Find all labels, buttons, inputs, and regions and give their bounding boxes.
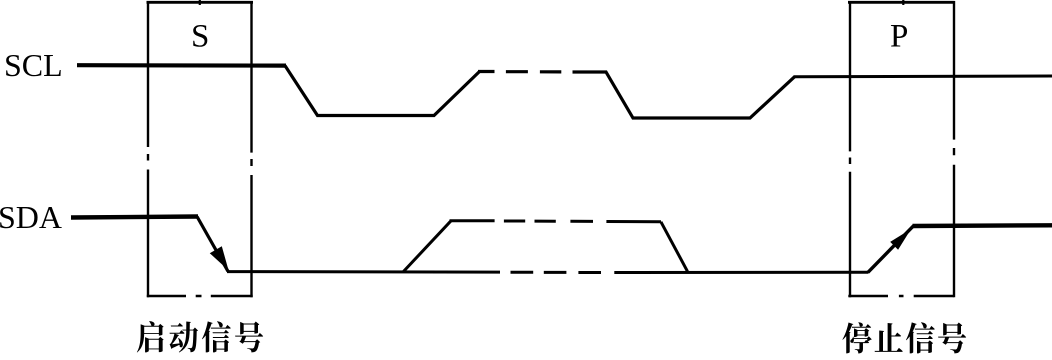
svg-text:P: P xyxy=(890,19,908,55)
S box top edge xyxy=(147,1,254,4)
SCL right high segment through P box xyxy=(794,75,1052,79)
caption 停止信号 (stop signal) xyxy=(842,322,966,353)
SDA wire: stop rise xyxy=(868,226,914,272)
svg-text:SCL: SCL xyxy=(4,47,63,83)
SCL dashed high (clock idle ...) xyxy=(506,70,561,73)
P box bottom edge (dash-dot) xyxy=(848,295,954,298)
SDA low dashed xyxy=(511,271,602,274)
SDA hump high dashed xyxy=(504,220,593,223)
SDA low 1 solid xyxy=(227,270,500,274)
svg-text:S: S xyxy=(191,19,209,55)
S box bottom edge (dash-dot) xyxy=(147,295,253,298)
arrowhead start (SDA falls while SCL high) xyxy=(211,247,228,269)
SDA right high segment (thick) xyxy=(913,223,1052,228)
P box right side (dash-dot) xyxy=(953,1,955,297)
SDA wire: hump rise xyxy=(403,221,451,272)
SDA lead-in high segment (thick) xyxy=(71,217,198,218)
SCL lead-in high segment (thick) xyxy=(77,63,286,68)
SDA low 2 solid xyxy=(614,271,868,274)
S box left side (dash-dot) xyxy=(147,1,149,297)
SDA wire: hump fall xyxy=(661,222,688,272)
SDA wire: start fall xyxy=(197,217,228,272)
P box top edge xyxy=(848,1,955,4)
P box center tick xyxy=(902,0,904,5)
SCL high solid before dashes xyxy=(478,70,495,73)
SCL wire: fall 1, low 1, rise 1 xyxy=(285,66,480,116)
S box right side (dash-dot) xyxy=(250,1,252,297)
svg-text:SDA: SDA xyxy=(0,199,62,235)
S box center tick xyxy=(199,0,201,5)
SDA hump high solid right xyxy=(606,220,661,223)
SCL wire: high solid, fall 2, low 2, rise 2 xyxy=(573,72,795,118)
caption 启动信号 (start signal) xyxy=(137,321,263,352)
SDA hump high solid left xyxy=(450,219,495,222)
P box left side (dash-dot) xyxy=(849,1,851,297)
arrowhead stop (SDA rises while SCL high) xyxy=(891,231,910,250)
